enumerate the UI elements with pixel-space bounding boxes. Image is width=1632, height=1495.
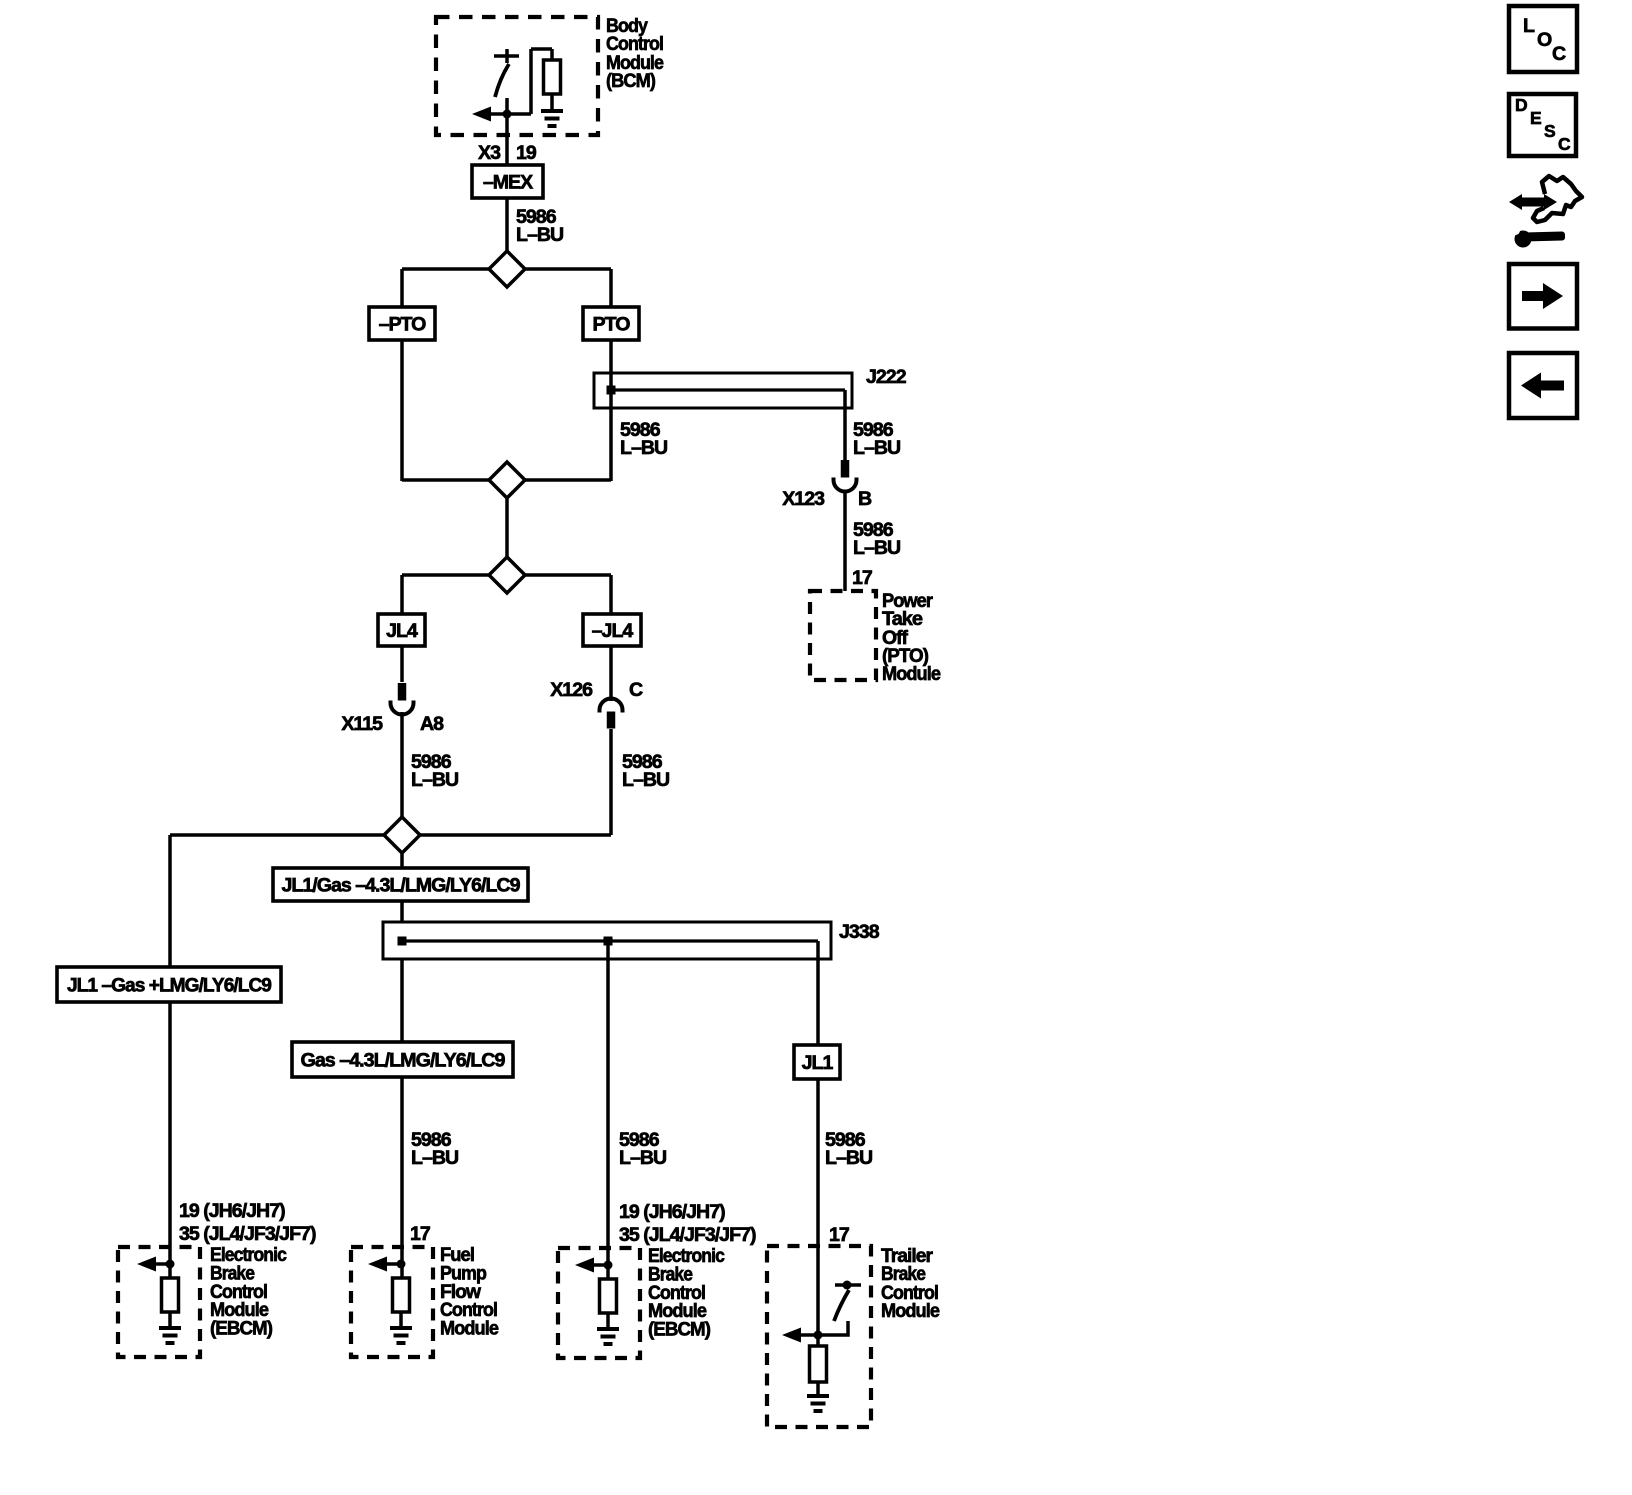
svg-text:D: D [1515,95,1527,115]
svg-text:X3: X3 [478,142,501,164]
svg-text:C: C [1552,43,1566,65]
svg-text:L–BU: L–BU [411,769,458,791]
svg-text:19 (JH6/JH7): 19 (JH6/JH7) [179,1200,285,1222]
svg-text:–JL4: –JL4 [592,620,634,642]
svg-text:L–BU: L–BU [853,537,900,559]
svg-text:L–BU: L–BU [619,1147,666,1169]
svg-text:Module: Module [881,1300,940,1322]
svg-text:Gas –4.3L/LMG/LY6/LC9: Gas –4.3L/LMG/LY6/LC9 [301,1050,506,1072]
svg-text:(EBCM): (EBCM) [648,1319,710,1341]
svg-text:S: S [1544,121,1555,141]
svg-text:(EBCM): (EBCM) [210,1318,272,1340]
svg-text:L–BU: L–BU [853,437,900,459]
svg-text:17: 17 [829,1224,850,1246]
svg-text:JL1 –Gas +LMG/LY6/LC9: JL1 –Gas +LMG/LY6/LC9 [67,975,272,997]
svg-text:JL1/Gas –4.3L/LMG/LY6/LC9: JL1/Gas –4.3L/LMG/LY6/LC9 [282,875,521,897]
svg-text:L: L [1523,15,1535,37]
svg-text:L–BU: L–BU [516,224,563,246]
svg-text:B: B [858,488,872,510]
svg-text:19 (JH6/JH7): 19 (JH6/JH7) [619,1201,725,1223]
svg-text:Module: Module [882,663,941,685]
svg-text:J222: J222 [866,366,907,388]
svg-text:19: 19 [516,142,537,164]
svg-text:X115: X115 [341,713,383,735]
svg-text:17: 17 [410,1223,431,1245]
svg-text:C: C [629,679,643,701]
svg-text:L–BU: L–BU [825,1147,872,1169]
svg-text:Module: Module [440,1318,499,1340]
svg-text:L–BU: L–BU [411,1147,458,1169]
svg-text:17: 17 [852,567,873,589]
svg-text:L–BU: L–BU [620,437,667,459]
svg-text:A8: A8 [420,713,444,735]
svg-text:X126: X126 [550,679,593,701]
svg-text:E: E [1530,108,1541,128]
svg-text:PTO: PTO [593,314,631,336]
svg-text:35 (JL4/JF3/JF7): 35 (JL4/JF3/JF7) [619,1224,756,1246]
svg-text:J338: J338 [839,921,880,943]
svg-text:L–BU: L–BU [622,769,669,791]
svg-text:JL1: JL1 [802,1052,834,1074]
svg-text:X123: X123 [782,488,825,510]
svg-text:–MEX: –MEX [483,172,533,194]
svg-text:35 (JL4/JF3/JF7): 35 (JL4/JF3/JF7) [179,1223,316,1245]
svg-text:JL4: JL4 [386,620,418,642]
svg-text:(BCM): (BCM) [606,70,655,92]
svg-text:–PTO: –PTO [379,314,427,336]
svg-text:O: O [1537,29,1552,51]
svg-text:C: C [1558,134,1571,154]
